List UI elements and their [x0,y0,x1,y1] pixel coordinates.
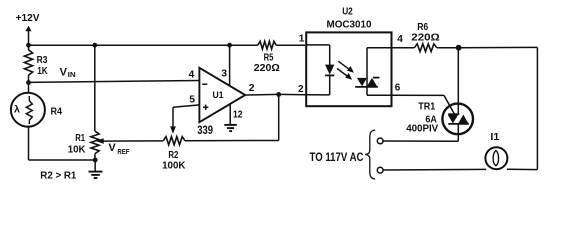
svg-text:5: 5 [189,94,195,105]
svg-text:R4: R4 [51,106,63,117]
svg-text:R5: R5 [264,52,274,63]
svg-text:λ: λ [14,104,20,116]
svg-text:R6: R6 [417,22,428,33]
svg-text:4: 4 [189,70,195,81]
svg-text:220Ω: 220Ω [254,63,280,74]
svg-text:R2 > R1: R2 > R1 [40,170,76,181]
svg-text:REF: REF [117,147,129,156]
svg-text:MOC3010: MOC3010 [327,18,372,30]
svg-text:R1: R1 [75,133,85,144]
svg-text:U2: U2 [342,5,353,17]
svg-text:1K: 1K [37,66,48,77]
svg-text:IN: IN [68,70,76,79]
svg-text:TO 117V AC: TO 117V AC [310,152,364,164]
svg-text:R3: R3 [37,55,48,66]
svg-text:3: 3 [221,68,227,79]
svg-text:1: 1 [299,34,305,45]
svg-text:+12V: +12V [16,12,40,24]
svg-text:2: 2 [298,84,304,95]
svg-text:339: 339 [197,125,213,137]
svg-text:V: V [108,142,116,154]
svg-text:12: 12 [233,110,243,121]
svg-text:TR1: TR1 [418,101,435,112]
svg-text:2: 2 [249,83,255,94]
svg-text:400PIV: 400PIV [406,124,438,135]
svg-text:100K: 100K [162,160,186,171]
svg-text:I1: I1 [490,132,499,143]
svg-text:6: 6 [395,83,401,94]
svg-text:10K: 10K [68,145,86,156]
svg-text:V: V [60,66,68,78]
svg-text:4: 4 [397,34,403,45]
svg-text:220Ω: 220Ω [411,33,440,44]
svg-text:U1: U1 [213,90,224,100]
